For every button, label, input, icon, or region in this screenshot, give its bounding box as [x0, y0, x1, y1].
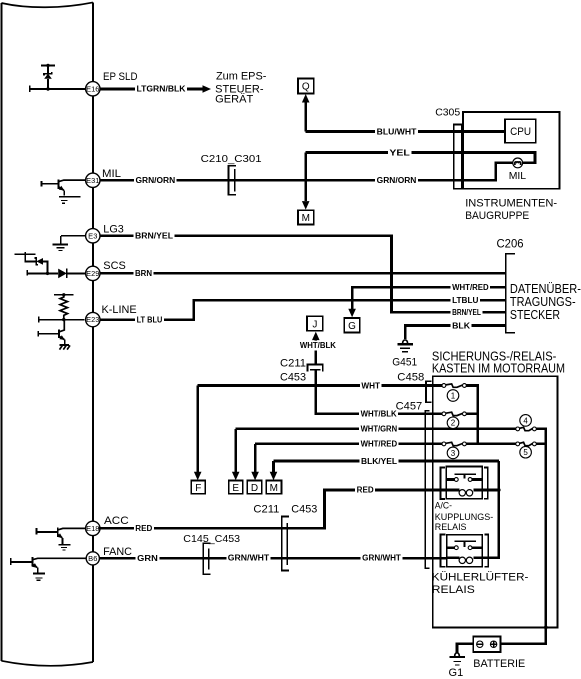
connector J — [307, 316, 323, 331]
ground LG3 — [61, 235, 86, 237]
fuse 5 — [516, 442, 520, 446]
wire fuse4 output to battery — [501, 429, 546, 644]
svg-text:WHT/GRN: WHT/GRN — [361, 425, 398, 434]
connector C305 — [454, 124, 462, 188]
svg-text:C211: C211 — [280, 358, 306, 370]
wire to D connector — [254, 444, 257, 472]
svg-text:K-LINE: K-LINE — [102, 304, 137, 316]
connector C457 bracket — [425, 411, 429, 569]
relay Kuehlerluefter brackets — [440, 534, 445, 566]
wire to E connector — [234, 429, 237, 472]
svg-text:KÜHLERLÜFTER-: KÜHLERLÜFTER- — [432, 572, 529, 584]
fuse 1 — [442, 384, 446, 388]
svg-text:LT BLU: LT BLU — [137, 316, 163, 325]
wire WHT/RED (fuse 3/5 row) — [255, 443, 518, 446]
svg-text:1: 1 — [451, 391, 456, 400]
label LTBLU (C206) — [451, 296, 480, 306]
svg-text:C206: C206 — [497, 237, 524, 251]
ECU right edge / pin rail — [92, 2, 94, 662]
svg-text:A/C-: A/C- — [435, 501, 452, 511]
transistor (ACC) — [37, 528, 58, 534]
svg-text:INSTRUMENTEN-: INSTRUMENTEN- — [465, 198, 557, 210]
connector C458 bracket — [426, 381, 432, 402]
ground (MIL emitter) — [63, 190, 65, 195]
pin E18 — [86, 521, 100, 535]
svg-text:E29: E29 — [86, 271, 99, 278]
svg-text:E16: E16 — [86, 86, 99, 93]
relay fan switch — [454, 541, 476, 547]
svg-text:B6: B6 — [88, 556, 97, 563]
svg-text:RELAIS: RELAIS — [432, 584, 475, 596]
connector D — [247, 481, 261, 494]
svg-text:STECKER: STECKER — [510, 308, 560, 322]
ground G1 — [455, 653, 460, 656]
svg-text:C305: C305 — [435, 106, 460, 118]
svg-text:GRN/WHT: GRN/WHT — [228, 554, 270, 563]
svg-text:KUPPLUNGS-: KUPPLUNGS- — [435, 512, 494, 522]
connector G — [344, 318, 360, 333]
svg-text:RED: RED — [135, 524, 152, 533]
connector C210_C301 — [229, 166, 236, 195]
svg-text:5: 5 — [523, 448, 528, 457]
svg-text:FANC: FANC — [103, 546, 132, 558]
svg-text:SCS: SCS — [103, 260, 126, 272]
wire SCS BRN — [100, 272, 506, 275]
label BRN/YEL (C206) — [451, 308, 483, 318]
svg-text:3: 3 — [451, 449, 456, 458]
label LTGRN/BLK — [135, 85, 187, 95]
wire WHT/BLK from J to fuse box — [316, 341, 444, 414]
label WHT/BLK (fuse row) — [359, 410, 398, 420]
pin E16 — [86, 82, 100, 96]
label BLK (C206) — [451, 322, 472, 332]
connector C211_C453 (upper) — [307, 364, 322, 371]
wire to M connector (bottom) — [272, 461, 275, 472]
label GRN — [136, 554, 160, 564]
pin E23 — [86, 312, 100, 326]
svg-text:E18: E18 — [86, 526, 99, 533]
ground G451 — [403, 340, 408, 343]
fuse/relay box (Sicherungs-/Relaiskasten) — [433, 376, 558, 627]
label BRN/YEL (left) — [134, 232, 175, 242]
wire GRN / GRN/WHT (FANC) — [99, 557, 446, 560]
svg-text:WHT/RED: WHT/RED — [452, 283, 489, 292]
relay A/C switch — [454, 474, 476, 478]
connector M (bottom) — [266, 481, 281, 494]
svg-text:MIL: MIL — [509, 170, 527, 182]
svg-text:E: E — [232, 483, 239, 494]
relay fan inner box — [447, 535, 482, 567]
svg-text:M: M — [302, 213, 310, 224]
svg-text:LTGRN/BLK: LTGRN/BLK — [137, 85, 186, 94]
label WHT/RED (fuse row) — [359, 440, 399, 450]
ground (ACC emitter) — [61, 538, 63, 544]
svg-text:C210_C301: C210_C301 — [201, 153, 262, 165]
label GRN/ORN (left) — [134, 176, 177, 186]
svg-text:DATENÜBER-: DATENÜBER- — [510, 282, 581, 296]
wire BLK/YEL — [274, 460, 499, 463]
svg-text:RED: RED — [357, 486, 374, 495]
svg-text:BLK: BLK — [452, 321, 470, 330]
svg-text:GRN/ORN: GRN/ORN — [377, 176, 417, 185]
svg-text:BATTERIE: BATTERIE — [473, 658, 525, 670]
label BLU/WHT — [375, 128, 418, 138]
label GRN/ORN (right) — [375, 176, 418, 186]
ECU control module outline (torn edges) — [1, 2, 93, 7]
svg-text:BRN: BRN — [135, 269, 152, 278]
svg-text:GRN/ORN: GRN/ORN — [136, 176, 176, 185]
wire to M connector (top) — [304, 153, 307, 201]
wire battery negative to ground G1 — [457, 644, 473, 653]
pin E3 — [86, 229, 100, 243]
pin E31 — [86, 173, 100, 187]
pin E29 — [86, 266, 100, 280]
svg-text:Zum EPS-: Zum EPS- — [216, 71, 267, 83]
pin B6 — [86, 552, 99, 565]
svg-text:EP SLD: EP SLD — [103, 71, 138, 83]
label BLK/YEL — [360, 457, 399, 467]
battery BATTERIE — [473, 637, 500, 653]
label GRN/WHT (left) — [226, 554, 270, 564]
transistor (MIL driver) — [42, 181, 59, 187]
label GRN/WHT (relay) — [361, 554, 403, 564]
svg-text:G451: G451 — [392, 357, 417, 369]
label WHT/BLK under J — [298, 341, 337, 351]
svg-text:BLU/WHT: BLU/WHT — [377, 127, 417, 136]
relay A/C Kupplungsrelais brackets — [441, 467, 445, 499]
wire to F connector — [196, 386, 199, 472]
svg-text:MIL: MIL — [102, 168, 121, 180]
label BRN — [134, 269, 154, 279]
connector M (top) — [298, 210, 314, 224]
svg-text:F: F — [195, 483, 201, 494]
svg-text:KASTEN IM MOTORRAUM: KASTEN IM MOTORRAUM — [432, 362, 565, 376]
relay A/C inner box — [446, 467, 482, 499]
label LT BLU — [135, 316, 164, 326]
label RED (left) — [134, 524, 154, 534]
svg-text:C453: C453 — [291, 503, 317, 515]
svg-text:LTBLU: LTBLU — [452, 296, 479, 305]
svg-text:WHT/BLK: WHT/BLK — [300, 341, 336, 350]
chassis ground (K-LINE emitter) — [64, 340, 66, 345]
svg-text:BRN/YEL: BRN/YEL — [135, 232, 173, 241]
svg-text:E23: E23 — [86, 317, 99, 324]
wire EPSLD LTGRN/BLK — [100, 88, 204, 91]
label YEL — [388, 149, 411, 159]
svg-text:BRN/YEL: BRN/YEL — [452, 308, 481, 317]
wire fuse5 output — [536, 443, 546, 446]
svg-text:RELAIS: RELAIS — [435, 522, 467, 532]
instrument cluster box — [463, 112, 559, 189]
svg-text:C457: C457 — [396, 401, 423, 413]
svg-text:E31: E31 — [86, 178, 99, 185]
wire K-LINE LT BLU — [99, 300, 505, 320]
MIL indicator lamp — [513, 158, 523, 168]
wire MIL GRN/ORN to instrument cluster — [100, 163, 513, 180]
CPU box — [505, 119, 536, 143]
svg-text:C145_C453: C145_C453 — [183, 533, 240, 545]
svg-text:G1: G1 — [449, 667, 464, 679]
label WHT — [360, 382, 382, 392]
svg-text:LG3: LG3 — [103, 224, 124, 236]
label WHT/RED (C206) — [451, 283, 491, 293]
wire A/C relay coil right lead — [482, 489, 499, 492]
wire RED (ACC) — [99, 490, 459, 528]
svg-text:YEL: YEL — [389, 148, 410, 157]
connector Q — [298, 79, 314, 94]
svg-text:C458: C458 — [397, 371, 424, 383]
wire WHT/RED to G connector — [352, 287, 506, 309]
wire YEL — [306, 153, 535, 163]
relay fan coil — [459, 557, 465, 563]
label WHT/GRN — [359, 425, 399, 435]
svg-text:D: D — [251, 483, 258, 494]
fuse 4 — [516, 427, 520, 431]
svg-text:WHT: WHT — [361, 381, 380, 390]
transistor (FANC) — [11, 558, 33, 565]
connector C145_C453 — [203, 543, 210, 574]
resistor (K-LINE pull-up) — [54, 294, 73, 296]
svg-text:GRN: GRN — [137, 554, 158, 563]
wire BLK/YEL down leg to relay coils — [473, 461, 499, 558]
wire WHT/GRN — [236, 428, 518, 431]
svg-text:CPU: CPU — [510, 126, 531, 138]
svg-text:C211: C211 — [253, 503, 279, 515]
fuse 3 — [442, 442, 446, 446]
svg-text:M: M — [270, 483, 278, 494]
svg-text:GERÄT: GERÄT — [215, 93, 253, 105]
wire WHT fuse1 feed — [198, 384, 444, 387]
svg-text:C453: C453 — [280, 372, 306, 384]
zener diode (EPS LD internal) — [41, 65, 55, 67]
svg-text:TRAGUNGS-: TRAGUNGS- — [510, 295, 576, 309]
svg-text:2: 2 — [451, 419, 456, 428]
relay A/C coil — [459, 490, 465, 496]
wire BLU/WHT — [306, 130, 506, 133]
connector F — [191, 481, 205, 494]
wire BLK to ground G451 — [405, 326, 506, 340]
svg-text:4: 4 — [523, 416, 528, 425]
wire EPSLD internal — [30, 86, 86, 92]
svg-text:G: G — [348, 321, 356, 332]
svg-text:J: J — [312, 319, 317, 330]
svg-text:E3: E3 — [88, 233, 97, 240]
svg-text:BLK/YEL: BLK/YEL — [361, 457, 397, 466]
label RED (relay) — [355, 486, 375, 496]
svg-text:BAUGRUPPE: BAUGRUPPE — [465, 210, 529, 222]
svg-text:WHT/BLK: WHT/BLK — [361, 410, 397, 419]
wire to Q connector — [304, 103, 307, 132]
wire fuse1/fuse2 output node — [464, 386, 478, 444]
diode (SCS series) — [27, 270, 58, 275]
svg-text:Q: Q — [302, 82, 310, 93]
fuse 2 — [442, 412, 446, 416]
zener diode (SCS clamp) — [14, 252, 35, 254]
transistor (K-LINE driver) — [38, 331, 59, 337]
svg-text:GRN/WHT: GRN/WHT — [362, 553, 401, 562]
connector C211_C453 (lower) — [282, 517, 289, 571]
wire LG3 BRN/YEL — [100, 236, 506, 312]
connector C206 bracket — [506, 254, 515, 333]
ground (FANC emitter) — [37, 568, 39, 574]
connector E — [229, 481, 243, 494]
svg-text:ACC: ACC — [104, 515, 129, 527]
svg-text:WHT/RED: WHT/RED — [361, 440, 398, 449]
